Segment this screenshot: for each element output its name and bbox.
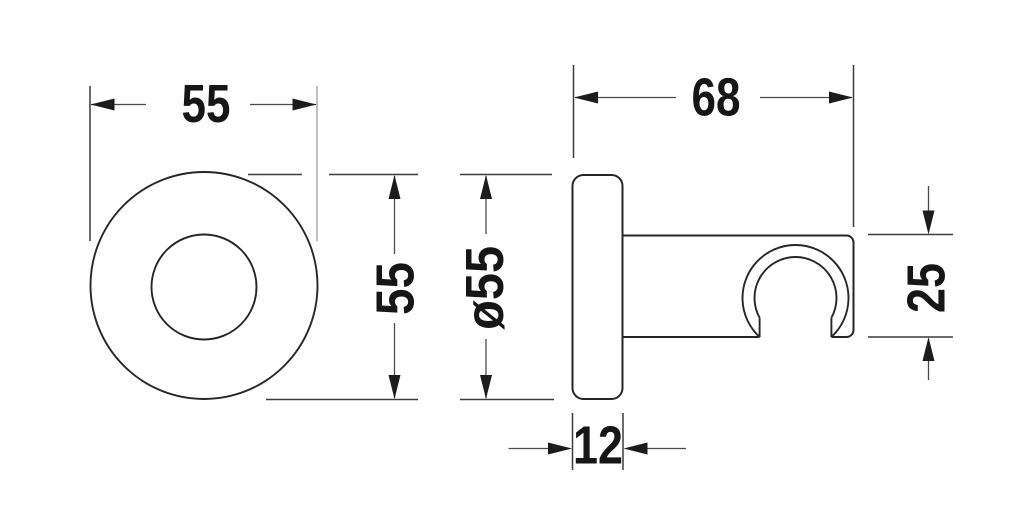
dimension 68: dimension line segments xyxy=(575,97,852,99)
dimension 55 vertical: bottom extension line xyxy=(266,399,418,401)
dimension 55 vertical: up arrow xyxy=(389,175,401,199)
dimension diameter 55: up arrow xyxy=(480,175,492,199)
holder ring inner arc xyxy=(755,257,837,318)
holder ring outer arc xyxy=(743,245,849,337)
dimension 25: down arrow xyxy=(923,211,935,235)
dimension diameter 55: bottom extension line xyxy=(460,399,554,401)
dimension diameter 55: down arrow xyxy=(480,375,492,399)
svg-text:ø55: ø55 xyxy=(455,246,515,330)
dimension 55 horizontal: left arrow xyxy=(91,99,115,111)
dimension 55 horizontal: right extension line xyxy=(316,86,318,241)
dimension 55 horizontal: right arrow xyxy=(293,99,317,111)
dimension 25: up arrow xyxy=(923,337,935,361)
dimension 55 vertical: down arrow xyxy=(389,375,401,399)
svg-text:25: 25 xyxy=(897,263,957,313)
dimension 12: right-pointing arrow xyxy=(548,443,572,455)
dimension 12: left-pointing arrow xyxy=(624,443,648,455)
dimension 55 vertical: value text (rotated) xyxy=(366,262,426,315)
side view arm outline xyxy=(623,236,854,338)
svg-text:55: 55 xyxy=(366,262,426,315)
dimension 25: bottom extension line xyxy=(868,336,953,338)
dimension 68: left extension line xyxy=(573,65,575,158)
dimension 12: right extension line xyxy=(622,413,624,470)
dimension 68: right extension line xyxy=(853,65,855,227)
svg-text:12: 12 xyxy=(573,416,623,476)
svg-text:68: 68 xyxy=(692,68,741,128)
dimension 55 horizontal: dimension line segments xyxy=(91,104,316,106)
side view wall plate (rounded rectangle) xyxy=(573,175,623,399)
dimension 12: left extension line xyxy=(572,413,574,470)
dimension 55 horizontal: left extension line xyxy=(89,86,91,241)
holder ring slot left wall xyxy=(759,318,761,337)
dimension 25: top extension line xyxy=(868,234,953,236)
dimension diameter 55: top extension line xyxy=(460,174,552,176)
holder ring slot right wall xyxy=(830,318,832,337)
dimension 55 vertical: top extension line segments xyxy=(248,174,418,176)
dimension diameter 55: value text (rotated) xyxy=(455,246,515,330)
dimension 12: dimension line segments xyxy=(509,448,687,450)
front view outer circle (ø55 plate) xyxy=(91,172,318,399)
dimension 55 vertical: dimension line segments xyxy=(394,176,396,398)
dimension 25: value text (rotated) xyxy=(897,263,957,313)
dimension 68: left arrow xyxy=(574,92,598,104)
svg-text:55: 55 xyxy=(182,74,231,134)
dimension 68: right arrow xyxy=(829,92,853,104)
dimension 25: dimension line segments xyxy=(928,186,930,380)
front view inner circle xyxy=(152,235,257,340)
dimension diameter 55: dimension line segments xyxy=(485,176,487,398)
